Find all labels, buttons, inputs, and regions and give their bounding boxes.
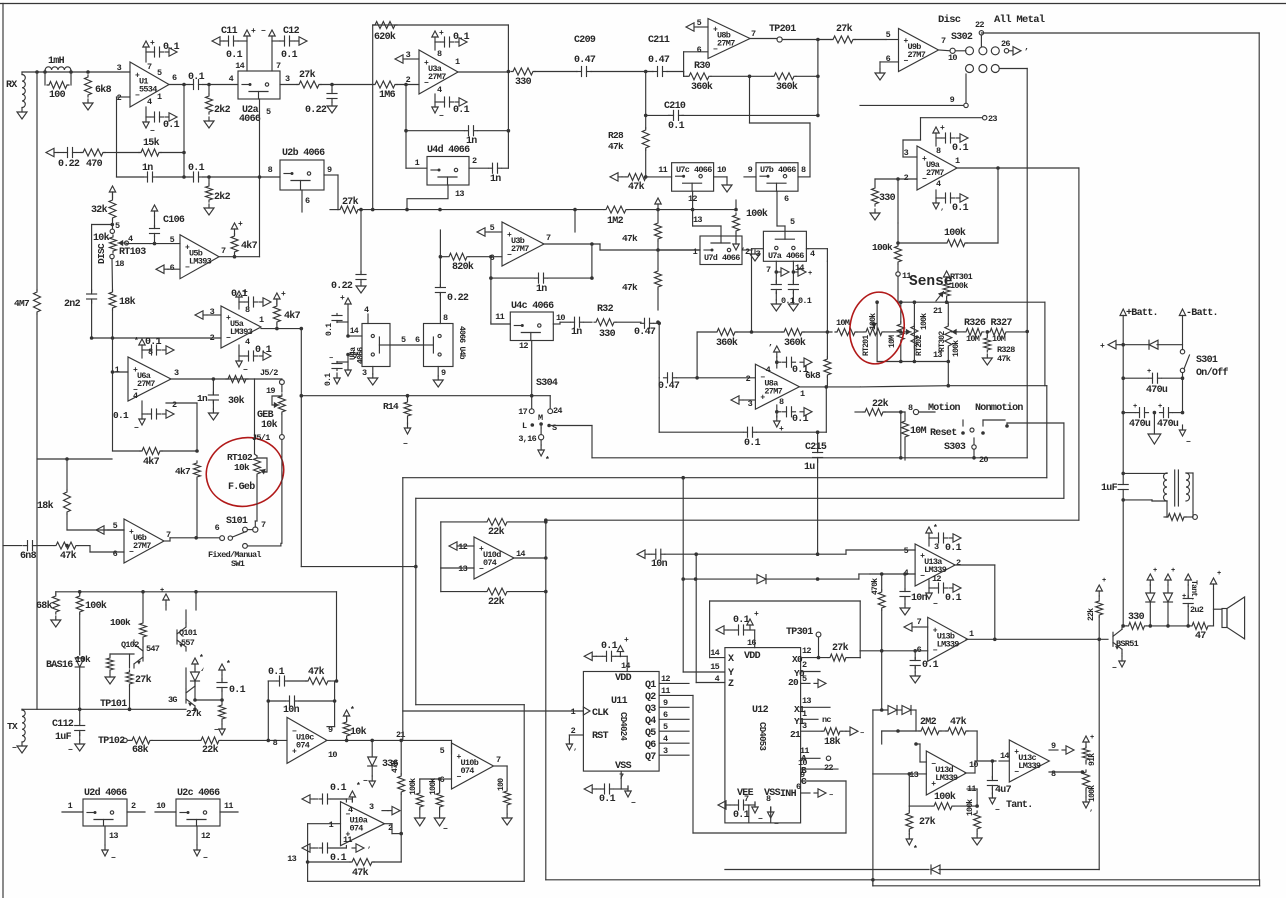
resistor 100k <box>733 200 768 240</box>
switch U4c 4066 <box>510 312 553 341</box>
ground <box>83 99 93 110</box>
pin 12 <box>197 826 210 845</box>
pin 2 RST <box>569 726 608 742</box>
pin 5 <box>266 107 271 117</box>
svg-text:5: 5 <box>266 107 271 117</box>
pin 11 <box>967 784 976 794</box>
label SW1 <box>231 559 245 569</box>
svg-text:TP102: TP102 <box>98 736 125 747</box>
wire <box>775 357 781 368</box>
resistor 1M6 <box>373 81 419 101</box>
pin 11 <box>491 312 510 324</box>
signal arrow <box>96 526 124 534</box>
pin 6 <box>170 263 175 273</box>
capacitor 0.1 <box>441 32 470 47</box>
svg-text:100k: 100k <box>952 340 961 357</box>
svg-text:RT302: RT302 <box>938 331 947 352</box>
signal arrow out <box>814 789 833 800</box>
svg-text:2u2: 2u2 <box>1190 605 1204 615</box>
capacitor 1n <box>117 163 190 182</box>
svg-text:’: ’ <box>741 248 745 256</box>
capacitor 0.47 <box>634 318 659 338</box>
switch U4b 4066 <box>424 324 454 367</box>
pin 10 <box>969 760 978 770</box>
svg-text:27k: 27k <box>919 816 936 828</box>
svg-text:1: 1 <box>455 57 460 67</box>
svg-text:U7b: U7b <box>760 165 774 175</box>
switch S304 label <box>536 378 558 389</box>
svg-text:Reset: Reset <box>930 428 957 439</box>
wire <box>142 401 147 414</box>
svg-text:6: 6 <box>305 196 310 206</box>
node L <box>522 421 534 431</box>
svg-text:0.1: 0.1 <box>324 373 333 386</box>
svg-text:U2d 4066: U2d 4066 <box>84 787 127 799</box>
wire pin2 <box>896 177 917 223</box>
wire nest3 <box>414 423 1064 568</box>
wire <box>267 679 339 740</box>
svg-text:20: 20 <box>788 677 799 688</box>
power +Batt arrow <box>1120 308 1158 319</box>
svg-text:0.22: 0.22 <box>58 159 80 170</box>
contact J5/2 <box>260 368 284 385</box>
pin 1 <box>308 820 341 830</box>
pin 6 <box>777 191 789 226</box>
pin 6 INH <box>780 782 810 800</box>
svg-text:9: 9 <box>327 165 332 175</box>
capacitor 470u <box>1123 368 1182 396</box>
svg-text:R28: R28 <box>608 130 624 141</box>
wire 360k line <box>697 332 714 378</box>
resistor 100k <box>872 242 902 272</box>
resistor 27k <box>906 806 936 834</box>
svg-text:4066: 4066 <box>694 165 712 175</box>
resistor 47k <box>622 210 662 252</box>
pin 10 B <box>798 758 838 776</box>
wire 620k loop <box>373 25 511 168</box>
resistor R14 <box>383 394 411 424</box>
svg-text:074: 074 <box>461 766 475 776</box>
pin 14 VDD <box>621 656 630 671</box>
svg-text:0.1: 0.1 <box>188 72 205 83</box>
label CD4053 <box>757 722 767 751</box>
svg-text:47: 47 <box>1195 631 1206 642</box>
capacitor 0.1 <box>268 667 306 686</box>
svg-text:10M: 10M <box>992 334 1006 344</box>
pin 5 <box>697 18 702 28</box>
wire <box>0 0 1 1</box>
pin 7 <box>941 36 946 46</box>
power -Batt arrow <box>1179 308 1218 319</box>
signal arrow <box>302 795 318 803</box>
wire battery rail down <box>1122 500 1124 626</box>
pin 19 <box>266 386 275 396</box>
speaker <box>1222 597 1245 639</box>
wire top rail <box>56 590 337 681</box>
wire <box>1121 316 1125 474</box>
label U4d 4066 <box>427 144 470 156</box>
resistor 360k b <box>782 329 832 350</box>
label U7b 4066 <box>760 165 796 175</box>
wire <box>667 72 684 77</box>
svg-text:CLK: CLK <box>592 708 609 719</box>
svg-text:*: * <box>356 782 360 791</box>
svg-text:18k: 18k <box>37 500 54 512</box>
pin 9 <box>433 367 446 388</box>
power arrow <box>455 98 467 106</box>
svg-text:1: 1 <box>571 707 576 717</box>
power +V arrow <box>236 288 248 302</box>
svg-text:Tant.: Tant. <box>1189 580 1198 601</box>
svg-text:2: 2 <box>406 75 411 85</box>
capacitor 0.1 <box>145 337 162 355</box>
resistor 330 <box>511 68 535 88</box>
op-amp U10c <box>287 717 327 763</box>
svg-text:11: 11 <box>661 686 670 696</box>
capacitor 0.1 <box>599 784 621 805</box>
capacitor C211 <box>648 35 670 77</box>
switch U4a 4066 <box>362 324 390 367</box>
pin Q5 <box>645 722 689 739</box>
svg-text:100k: 100k <box>934 791 956 803</box>
resistor 18k <box>822 728 846 748</box>
svg-text:U7d: U7d <box>704 253 718 263</box>
svg-text:+: + <box>1102 577 1106 585</box>
wire <box>203 83 238 87</box>
svg-text:9: 9 <box>663 698 668 708</box>
signal arrow <box>195 311 207 319</box>
wire <box>1044 302 1046 386</box>
resistor R30 360k <box>687 61 772 93</box>
svg-text:6n8: 6n8 <box>20 551 37 562</box>
ground <box>502 814 512 825</box>
wire <box>1049 770 1084 774</box>
pin 6 <box>490 253 495 263</box>
node M <box>538 413 543 428</box>
svg-text:1n: 1n <box>490 174 501 185</box>
svg-text:C112: C112 <box>52 719 74 730</box>
pin 1 <box>157 92 162 102</box>
label VEE <box>737 788 754 799</box>
resistor 2k2 <box>206 85 231 117</box>
label F.Geb <box>228 481 255 493</box>
svg-text:5: 5 <box>904 546 909 556</box>
svg-text:68k: 68k <box>132 744 149 756</box>
wire <box>346 353 350 362</box>
wire U5b out <box>219 255 260 259</box>
svg-text:0.22: 0.22 <box>447 293 469 304</box>
svg-text:*: * <box>350 706 354 715</box>
transformer <box>1123 470 1193 512</box>
capacitor 0.22 <box>435 230 469 324</box>
pin 1 <box>62 801 83 812</box>
label U2b 4066 <box>282 147 325 159</box>
wire pin13 <box>441 567 474 569</box>
pin 10 <box>553 313 570 324</box>
resistor 68k <box>128 737 199 756</box>
svg-text:6: 6 <box>796 782 801 792</box>
svg-text:5: 5 <box>790 217 795 227</box>
power arrow <box>1210 570 1222 626</box>
svg-text:24: 24 <box>553 406 562 416</box>
svg-text:13: 13 <box>109 831 118 841</box>
resistor 100k <box>409 778 423 818</box>
wire U10a outer loop <box>308 567 525 882</box>
capacitor 10n <box>900 572 928 604</box>
ground <box>17 108 27 119</box>
svg-text:C12: C12 <box>283 26 300 37</box>
resistor 30k <box>226 376 248 408</box>
svg-text:100k: 100k <box>85 600 107 612</box>
svg-text:1n: 1n <box>197 393 208 404</box>
svg-text:6k8: 6k8 <box>805 370 821 381</box>
svg-text:470u: 470u <box>1129 419 1151 430</box>
svg-text:470u: 470u <box>1146 385 1168 396</box>
pin 6 <box>415 335 420 345</box>
svg-text:0.47: 0.47 <box>574 55 596 66</box>
svg-text:10n: 10n <box>651 559 668 570</box>
svg-text:32k: 32k <box>91 204 108 216</box>
resistor 47k <box>306 666 335 685</box>
svg-text:LM393: LM393 <box>189 257 212 267</box>
label U7c 4066 <box>676 165 712 175</box>
svg-text:330: 330 <box>1128 612 1145 623</box>
capacitor 0.1 <box>733 800 750 821</box>
capacitor C210 <box>664 101 820 132</box>
power +V arrow <box>244 27 256 41</box>
svg-text:Q102: Q102 <box>121 640 139 650</box>
svg-text:2: 2 <box>746 374 751 384</box>
pin 5 <box>390 335 424 345</box>
wire top border <box>0 3 1286 5</box>
svg-text:470: 470 <box>86 159 103 170</box>
pin 2 <box>746 374 751 384</box>
switch S302 contacts row2 <box>966 65 1000 73</box>
svg-text:68k: 68k <box>36 600 53 612</box>
wire <box>0 0 1 1</box>
svg-text:0.1: 0.1 <box>268 667 285 678</box>
power -V arrow <box>214 724 225 735</box>
ground <box>875 69 885 80</box>
svg-text:*: * <box>226 660 230 669</box>
power +V arrow <box>432 29 444 42</box>
resistor 100k <box>110 592 147 647</box>
IC U11 CD4024 <box>583 672 659 772</box>
capacitor 0.1 <box>231 289 258 307</box>
svg-text:12: 12 <box>661 674 670 684</box>
pin 3 <box>174 368 179 378</box>
power arrow <box>259 298 271 306</box>
resistor 330 <box>1123 612 1190 629</box>
contact 23 <box>921 114 998 140</box>
svg-text:0.1: 0.1 <box>163 120 180 131</box>
inductor 1mH <box>45 56 71 72</box>
pin 8 <box>273 738 278 748</box>
svg-text:360k: 360k <box>691 81 713 93</box>
svg-text:’: ’ <box>1089 810 1093 818</box>
svg-text:U2b 4066: U2b 4066 <box>282 147 325 159</box>
svg-text:100: 100 <box>49 90 66 101</box>
pin 7 <box>221 246 226 256</box>
label U11 <box>611 696 628 707</box>
pin 4 Z <box>696 674 734 690</box>
signal arrow <box>584 652 602 660</box>
resistor 2M2 <box>880 651 916 744</box>
wire <box>899 410 903 458</box>
power -V arrow <box>134 414 145 433</box>
power -V arrow <box>194 845 208 863</box>
pin 7 <box>546 233 551 243</box>
pin 14 <box>999 751 1009 761</box>
svg-text:27M7: 27M7 <box>926 168 944 178</box>
wire bottom bus B <box>546 878 1259 882</box>
svg-text:0.1: 0.1 <box>453 32 470 43</box>
svg-text:4u7: 4u7 <box>995 785 1012 796</box>
svg-text:6: 6 <box>663 710 668 720</box>
svg-text:8: 8 <box>268 165 273 175</box>
svg-text:6: 6 <box>415 335 420 345</box>
svg-text:3: 3 <box>802 721 807 731</box>
label Disc <box>938 14 961 26</box>
svg-text:100k: 100k <box>409 778 418 795</box>
resistor 22k <box>855 398 919 416</box>
pin 2 <box>166 400 197 451</box>
resistor 6k8 <box>85 75 112 97</box>
wire <box>0 0 1 1</box>
wire <box>321 83 373 87</box>
svg-text:Z: Z <box>728 679 734 690</box>
op-amp U5a <box>221 306 261 348</box>
signal arrow <box>477 228 502 236</box>
op-amp U6b <box>124 519 164 563</box>
LED <box>1146 567 1157 626</box>
svg-text:6k8: 6k8 <box>95 84 112 96</box>
svg-text:10n: 10n <box>283 705 300 716</box>
capacitor 0.1 <box>188 72 205 90</box>
capacitor 0.22 <box>58 148 80 171</box>
svg-text:21: 21 <box>790 729 801 740</box>
capacitor 0.1 <box>320 843 347 864</box>
pin 2 <box>210 333 215 343</box>
pin 2 <box>956 558 961 568</box>
wire <box>963 420 1005 426</box>
transistor 3G <box>168 668 197 711</box>
svg-text:S301: S301 <box>1196 355 1218 366</box>
pin 13 <box>933 350 942 360</box>
label U7d 4066 <box>704 253 740 263</box>
svg-text:8: 8 <box>245 305 250 315</box>
svg-text:5: 5 <box>401 335 406 345</box>
power arrow <box>1083 797 1093 818</box>
svg-text:0.1: 0.1 <box>922 660 939 671</box>
svg-text:100k: 100k <box>110 617 131 628</box>
svg-text:47k: 47k <box>60 550 77 562</box>
svg-text:All Metal: All Metal <box>994 14 1045 26</box>
wire <box>1181 373 1185 415</box>
trimmer RT102 10k <box>227 452 267 476</box>
svg-text:1mH: 1mH <box>48 56 65 67</box>
resistor 22k <box>1087 577 1106 639</box>
wire <box>859 574 870 579</box>
resistor <box>1164 501 1192 521</box>
svg-text:14: 14 <box>1000 751 1009 761</box>
svg-text:360k: 360k <box>716 337 738 349</box>
ground <box>208 409 218 420</box>
svg-text:7: 7 <box>917 617 922 627</box>
switch U7c 4066 <box>672 163 714 192</box>
wire x683 rail <box>682 478 684 672</box>
pin 8 <box>443 313 448 323</box>
capacitor 0.1 <box>441 97 470 116</box>
svg-text:27k: 27k <box>135 674 152 686</box>
power -V arrow <box>621 786 636 808</box>
svg-text:4066: 4066 <box>786 251 804 261</box>
wire <box>372 85 374 210</box>
pin Q2 <box>645 686 693 703</box>
contact 11 <box>896 271 912 281</box>
node RX input <box>6 80 17 91</box>
resistor 10M <box>888 322 904 348</box>
switch S303 <box>944 438 988 465</box>
svg-text:10k: 10k <box>350 726 367 738</box>
wire pin4 <box>870 573 915 575</box>
svg-text:26: 26 <box>1001 39 1010 49</box>
power -V arrow <box>432 102 444 121</box>
label Nonmotion <box>975 402 1023 414</box>
op-amp U13b <box>928 617 968 661</box>
pin 8 <box>268 165 273 175</box>
wire U3a out <box>458 71 508 73</box>
wire <box>817 40 819 116</box>
svg-text:DISC: DISC <box>96 243 107 264</box>
wire <box>0 0 1 1</box>
op-amp U3b <box>502 222 544 266</box>
svg-text:2: 2 <box>131 801 136 811</box>
node 21 <box>396 730 405 740</box>
resistor 22k <box>199 737 287 756</box>
power -V arrow <box>102 845 116 863</box>
capacitor 0.1 <box>113 409 161 421</box>
wire U8a out <box>799 385 860 389</box>
svg-text:nc: nc <box>822 715 831 725</box>
power -V arrow <box>143 117 155 136</box>
switch U7d 4066 <box>700 236 742 265</box>
svg-text:3: 3 <box>174 368 179 378</box>
wire <box>877 302 914 361</box>
svg-text:BSR51: BSR51 <box>1116 639 1139 649</box>
wire <box>22 70 130 74</box>
svg-text:22k: 22k <box>202 744 219 756</box>
contact 10 <box>948 48 957 63</box>
svg-text:+: + <box>1090 734 1094 742</box>
resistor 68k <box>36 592 59 614</box>
resistor 10k <box>343 716 367 740</box>
svg-text:0.22: 0.22 <box>331 281 353 292</box>
resistor R326 10M <box>964 328 984 344</box>
pin Q1 <box>645 674 689 691</box>
pin 7 <box>751 29 756 39</box>
contact SW1 <box>243 543 281 548</box>
svg-text:S304: S304 <box>536 378 558 389</box>
wire <box>0 0 1 1</box>
svg-text:R32: R32 <box>597 304 614 315</box>
wire <box>695 554 697 682</box>
wire <box>872 710 874 774</box>
pin 3 <box>285 74 290 84</box>
svg-text:Q7: Q7 <box>645 752 656 763</box>
wire nest1 <box>1026 332 1028 458</box>
svg-text:0.1: 0.1 <box>945 593 962 604</box>
